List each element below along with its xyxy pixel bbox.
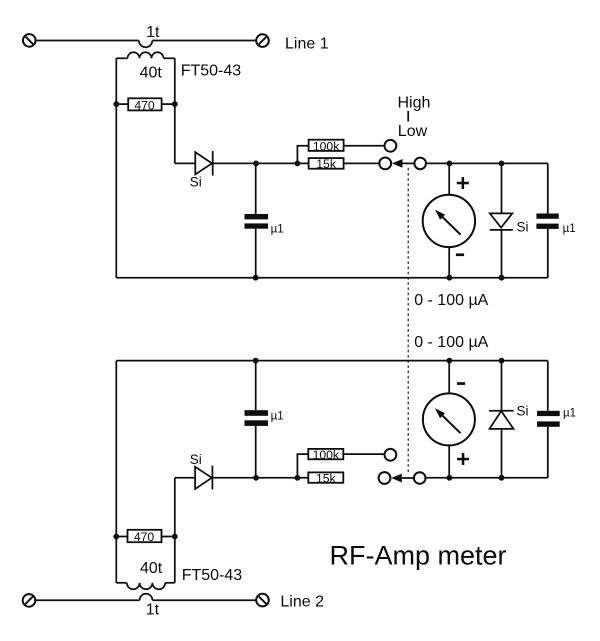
resistor R1 470 (top) bbox=[116, 98, 175, 112]
wire left vertical (top circuit) bbox=[115, 58, 117, 277]
node: junction at 100k branch (top) bbox=[295, 161, 301, 167]
svg-text:40t: 40t bbox=[140, 560, 163, 577]
label - (top meter) bbox=[456, 253, 464, 256]
wire 15k to selected contact (top) bbox=[344, 162, 380, 164]
node: junction dot left of R6 bbox=[113, 534, 119, 540]
capacitor C3 u1 (bottom left) bbox=[245, 410, 269, 426]
svg-text:µ1: µ1 bbox=[271, 224, 284, 236]
inductor L1 40t (top) bbox=[116, 52, 175, 58]
wire capacitor C2 bottom lead bbox=[547, 229, 549, 278]
wire diode to switch rail (top) bbox=[213, 162, 309, 164]
wire right vertical diode to 40t (bottom circuit) bbox=[174, 478, 176, 583]
switch contact: open circle 100k (bottom) bbox=[385, 449, 397, 461]
node: junction at C3 branch (bottom) bbox=[253, 475, 259, 481]
svg-text:100k: 100k bbox=[313, 139, 340, 153]
svg-text:FT50-43: FT50-43 bbox=[181, 63, 242, 80]
switch pole: open circle (top) bbox=[414, 158, 426, 170]
dashed gang line bbox=[407, 168, 409, 474]
svg-text:RF-Amp meter: RF-Amp meter bbox=[330, 541, 507, 571]
resistor R4 100k (bottom) bbox=[308, 448, 343, 462]
diode D1 Si (top, series) bbox=[195, 151, 212, 176]
switch wiper arrow (bottom) bbox=[391, 474, 402, 483]
wire capacitor C4 top lead bbox=[547, 361, 549, 411]
terminal J2 top-right bbox=[256, 34, 269, 47]
resistor R2 100k (top) bbox=[309, 139, 344, 153]
svg-text:1t: 1t bbox=[146, 602, 160, 619]
svg-text:0 - 100 µA: 0 - 100 µA bbox=[414, 334, 488, 351]
node: junction C1 bottom bbox=[253, 275, 259, 281]
resistor R3 15k (top) bbox=[309, 157, 344, 171]
node: junction at C1 branch (top) bbox=[253, 161, 259, 167]
switch contact: open circle 100k (top) bbox=[385, 140, 397, 152]
switch pole: open circle (bottom) bbox=[414, 472, 426, 484]
svg-text:15k: 15k bbox=[316, 157, 337, 171]
wire switch pole to meter rail (top) bbox=[426, 162, 548, 164]
resistor R6 470 (bottom) bbox=[116, 530, 175, 544]
node: junction C3 top bbox=[253, 358, 259, 364]
wire capacitor C3 top lead bbox=[255, 361, 257, 411]
wire diode D4 bottom lead bbox=[501, 429, 503, 478]
capacitor C4 u1 (bottom right) bbox=[537, 411, 560, 427]
wire bottom line left segment bbox=[35, 599, 139, 601]
wire diode feed (top) bbox=[175, 162, 196, 164]
wire capacitor C4 bottom lead bbox=[547, 427, 549, 478]
wire capacitor C1 bottom lead bbox=[255, 229, 257, 278]
wire diode D4 top lead bbox=[501, 361, 503, 411]
label + (top meter) bbox=[457, 177, 469, 189]
diode D4 Si (bottom, shunt) bbox=[489, 411, 514, 429]
resistor R5 15k (bottom) bbox=[308, 472, 343, 486]
inductor L2 40t (bottom) bbox=[116, 583, 175, 589]
wire meter top lead (top) bbox=[448, 163, 450, 194]
wire diode D2 bottom lead bbox=[501, 230, 503, 278]
switch wiper arrow (top) bbox=[392, 159, 403, 168]
terminal J4 bottom-right bbox=[256, 594, 269, 607]
node: junction meter bottom (bottom circuit) bbox=[447, 475, 453, 481]
switch contact: open circle 15k selected (bottom) bbox=[379, 472, 391, 484]
wire diode D2 top lead bbox=[501, 163, 503, 213]
svg-text:Line 2: Line 2 bbox=[280, 593, 324, 610]
meter M1 0-100uA (top) bbox=[423, 195, 475, 247]
wire 100k to open contact (top) bbox=[344, 145, 385, 147]
svg-text:1t: 1t bbox=[146, 24, 160, 41]
wire 100k branch riser (bottom) bbox=[297, 454, 308, 478]
node: junction dot right of R6 bbox=[172, 534, 178, 540]
node: junction diode top (bottom) bbox=[499, 358, 505, 364]
wire capacitor C3 bottom lead bbox=[255, 426, 257, 478]
svg-text:µ1: µ1 bbox=[563, 408, 576, 420]
switch label divider bbox=[407, 111, 409, 122]
svg-text:Si: Si bbox=[190, 452, 202, 467]
wire capacitor C1 top lead bbox=[255, 163, 257, 214]
node: junction diode branch (top) bbox=[499, 161, 505, 167]
svg-text:40t: 40t bbox=[140, 64, 163, 81]
label - (bottom meter) bbox=[457, 382, 465, 385]
capacitor C1 u1 (top left) bbox=[245, 214, 269, 229]
wire wiper stem (bottom) bbox=[402, 477, 414, 479]
node: junction meter branch (top) bbox=[447, 161, 453, 167]
svg-text:Low: Low bbox=[398, 123, 428, 140]
svg-text:0 - 100 µA: 0 - 100 µA bbox=[414, 292, 488, 309]
terminal J1 top-left bbox=[23, 34, 36, 47]
wire left vertical (bottom circuit) bbox=[115, 361, 117, 583]
terminal J3 bottom-left bbox=[23, 594, 36, 607]
wire top line right segment bbox=[152, 40, 256, 42]
svg-text:470: 470 bbox=[134, 98, 155, 112]
diode D3 Si (bottom, series) bbox=[195, 466, 212, 490]
wire right vertical 40t to diode (top circuit) bbox=[174, 58, 176, 163]
svg-text:100k: 100k bbox=[313, 448, 340, 462]
node: junction dot right of R1 bbox=[172, 101, 178, 107]
node: junction meter bottom (top) bbox=[447, 275, 453, 281]
wire 100k branch riser (top) bbox=[297, 146, 308, 164]
svg-text:Si: Si bbox=[190, 174, 202, 189]
wire diode feed (bottom) bbox=[175, 477, 195, 479]
node: junction dot left of R1 bbox=[113, 101, 119, 107]
diode D2 Si (top, shunt) bbox=[490, 213, 513, 230]
wire meter bottom lead (bottom) bbox=[448, 445, 450, 477]
svg-text:µ1: µ1 bbox=[271, 411, 284, 423]
wire capacitor C2 top lead bbox=[547, 163, 549, 213]
wire wiper stem (top) bbox=[403, 162, 415, 164]
switch contact: open circle 15k selected (top) bbox=[379, 158, 391, 170]
label + (bottom meter) bbox=[457, 453, 469, 465]
svg-text:15k: 15k bbox=[316, 472, 337, 486]
inductor 1t (bottom line single turn) bbox=[140, 594, 153, 600]
svg-text:Si: Si bbox=[517, 403, 529, 418]
wire meter bottom lead (top) bbox=[448, 247, 450, 278]
wire diode to switch rail (bottom) bbox=[212, 477, 308, 479]
wire bottom rail (top circuit) bbox=[116, 277, 548, 279]
node: junction diode bottom (top) bbox=[499, 275, 505, 281]
wire top line left segment bbox=[36, 40, 139, 42]
wire switch pole to meter rail (bottom) bbox=[426, 477, 548, 479]
wire bottom line right segment bbox=[152, 599, 256, 601]
svg-text:Si: Si bbox=[517, 220, 529, 235]
wire top rail (bottom circuit) bbox=[116, 360, 548, 362]
node: junction at 100k branch (bottom) bbox=[295, 475, 301, 481]
svg-text:FT50-43: FT50-43 bbox=[182, 567, 243, 584]
svg-text:Line 1: Line 1 bbox=[285, 36, 329, 53]
node: junction diode bottom (bottom circuit) bbox=[499, 475, 505, 481]
meter M2 0-100uA (bottom) bbox=[423, 393, 475, 445]
inductor 1t (top line single turn) bbox=[139, 41, 152, 48]
svg-text:µ1: µ1 bbox=[563, 223, 576, 235]
wire meter top lead (bottom) bbox=[448, 361, 450, 394]
svg-text:High: High bbox=[398, 95, 431, 112]
svg-text:470: 470 bbox=[134, 530, 155, 544]
capacitor C2 u1 (top right) bbox=[536, 214, 558, 229]
node: junction meter top (bottom) bbox=[447, 358, 453, 364]
wire 100k to open contact (bottom) bbox=[343, 453, 384, 455]
